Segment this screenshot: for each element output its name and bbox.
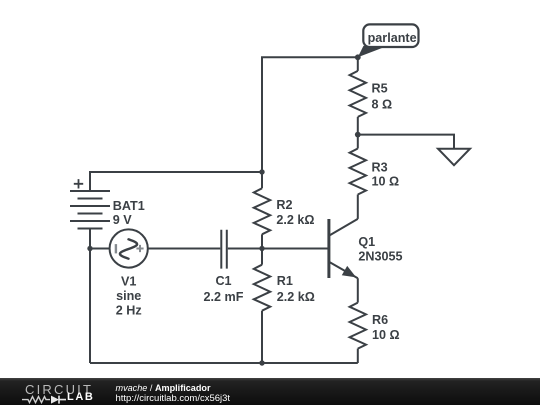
svg-text:BAT1: BAT1 [113, 199, 145, 213]
ground symbol [438, 149, 470, 166]
svg-text:10 Ω: 10 Ω [372, 175, 400, 189]
svg-text:V1: V1 [121, 275, 136, 289]
svg-text:R3: R3 [372, 161, 388, 175]
transistor Q1 emitter diagonal with arrow [329, 262, 358, 278]
wire base from middle node to Q1 [262, 248, 329, 250]
battery BAT1 plates [70, 191, 110, 229]
svg-text:2.2 mF: 2.2 mF [204, 290, 244, 304]
footer bar [0, 378, 540, 405]
svg-text:8 Ω: 8 Ω [372, 97, 393, 111]
wire V1 to capacitor C1 [148, 248, 221, 250]
node junction left [87, 246, 92, 251]
bottom rail wire [90, 362, 358, 364]
node junction bottom [259, 360, 264, 365]
transistor Q1 collector diagonal [329, 219, 358, 236]
svg-text:R6: R6 [372, 313, 388, 327]
svg-text:R5: R5 [372, 82, 388, 96]
circuitlab logo text CIRCUIT [25, 384, 93, 395]
battery BAT1 plus sign [74, 179, 83, 188]
svg-text:10 Ω: 10 Ω [372, 328, 400, 342]
svg-text:parlante: parlante [368, 31, 417, 45]
circuitlab logo text LAB [67, 392, 94, 403]
wire top rail from middle column to parlante node [262, 57, 358, 172]
svg-text:R2: R2 [276, 198, 292, 212]
svg-text:2.2 kΩ: 2.2 kΩ [277, 290, 315, 304]
resistor R2 [254, 172, 270, 249]
footer author line [116, 383, 211, 393]
wire node to ground [358, 135, 454, 149]
capacitor C1 plates [221, 230, 227, 269]
V1 sine squiggle [120, 239, 137, 258]
V1 plus terminal marker [136, 245, 143, 252]
wire battery minus down to node [89, 229, 91, 249]
transistor Q1 base bar [327, 219, 330, 278]
wire C1 to middle node [228, 248, 262, 250]
circuitlab logo symbol row [22, 394, 92, 405]
wire node to V1 [90, 248, 110, 250]
wire left column down to bottom rail [89, 249, 91, 364]
logo diode symbol [51, 396, 59, 404]
svg-text:R1: R1 [277, 274, 293, 288]
svg-text:2 Hz: 2 Hz [116, 304, 142, 318]
voltage source V1 circle [110, 229, 148, 267]
logo resistor squiggle [22, 397, 50, 403]
V1 minus terminal marker [115, 244, 117, 253]
parlante flag [358, 24, 419, 57]
resistor R5 [350, 57, 366, 134]
node junction middle [259, 246, 264, 251]
footer url line [116, 394, 231, 404]
svg-text:C1: C1 [215, 274, 231, 288]
svg-text:Q1: Q1 [358, 235, 375, 249]
svg-text:9 V: 9 V [113, 213, 133, 227]
resistor R6 [350, 278, 366, 363]
svg-text:2N3055: 2N3055 [358, 249, 402, 263]
resistor R3 [350, 135, 366, 219]
wire battery plus to middle column [90, 172, 262, 191]
node junction middle-top [259, 169, 264, 174]
svg-text:2.2 kΩ: 2.2 kΩ [276, 213, 314, 227]
node junction R5-R3-ground [355, 132, 361, 138]
svg-text:sine: sine [116, 289, 141, 303]
resistor R1 [254, 249, 270, 364]
node junction parlante [355, 54, 361, 60]
